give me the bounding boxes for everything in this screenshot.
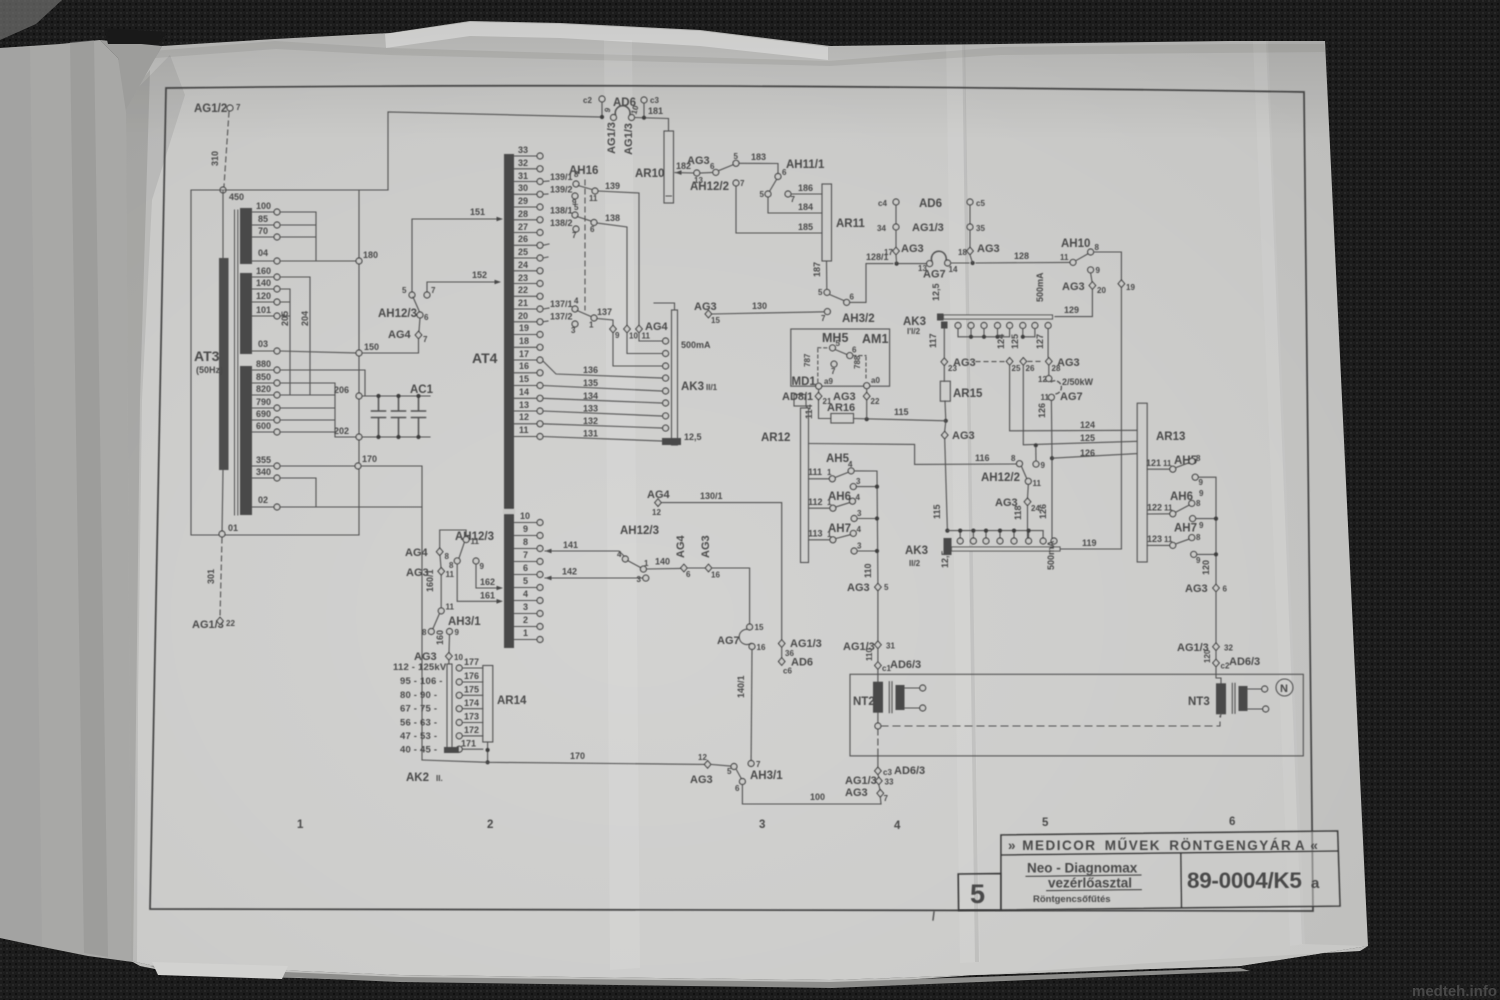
svg-text:67 - 75 -: 67 - 75 - — [400, 704, 437, 715]
svg-text:31: 31 — [886, 642, 895, 651]
svg-text:8: 8 — [1095, 243, 1100, 252]
svg-text:5: 5 — [734, 152, 739, 161]
wire 301 dashed — [220, 538, 222, 617]
svg-text:11: 11 — [1041, 393, 1050, 402]
svg-text:6: 6 — [852, 346, 857, 355]
tap 120 — [252, 301, 273, 303]
svg-text:170: 170 — [362, 454, 377, 464]
svg-text:04: 04 — [258, 248, 268, 258]
svg-text:AH12/3: AH12/3 — [378, 308, 417, 320]
wire 138 — [597, 223, 627, 325]
svg-text:151: 151 — [470, 207, 485, 217]
drawing border frame — [150, 86, 1313, 911]
selector taps — [456, 665, 462, 671]
node a9 — [816, 383, 822, 389]
svg-text:7: 7 — [236, 103, 241, 112]
svg-text:160: 160 — [256, 266, 271, 276]
svg-text:1: 1 — [644, 559, 649, 568]
svg-text:a0: a0 — [871, 376, 880, 385]
svg-text:AG3: AG3 — [1057, 357, 1080, 369]
fold tick mark bottom center — [933, 912, 934, 920]
svg-text:70: 70 — [258, 226, 268, 236]
svg-text:130/1: 130/1 — [700, 491, 723, 501]
svg-text:AH3/2: AH3/2 — [842, 313, 875, 325]
wire 205 — [280, 289, 290, 395]
NT2 primary bottom node — [877, 713, 879, 723]
svg-text:AG3: AG3 — [901, 243, 924, 255]
wire 181 — [635, 118, 669, 132]
svg-text:8: 8 — [1011, 454, 1016, 463]
svg-text:110: 110 — [865, 648, 874, 661]
underline Neo-Diagnomax — [1025, 875, 1141, 876]
svg-text:AK3: AK3 — [905, 545, 928, 557]
svg-text:4: 4 — [848, 460, 853, 469]
relay contact AG3 22 — [866, 389, 868, 393]
svg-text:12: 12 — [698, 753, 707, 762]
shunt bar 500mA — [944, 315, 1053, 319]
svg-text:690: 690 — [256, 409, 271, 419]
svg-text:32: 32 — [1224, 644, 1233, 653]
svg-text:c4: c4 — [878, 199, 887, 208]
wiper AK2 — [444, 747, 459, 753]
wire 137 — [597, 319, 613, 326]
title cell divider — [1180, 853, 1183, 909]
svg-text:Röntgencsőfűtés: Röntgencsőfűtés — [1033, 894, 1111, 905]
svg-text:174: 174 — [464, 698, 479, 708]
svg-text:175: 175 — [464, 685, 479, 695]
svg-text:187: 187 — [812, 262, 822, 277]
svg-text:N: N — [1280, 683, 1288, 695]
shunt fitting — [937, 314, 944, 321]
shunt tap circles row — [955, 323, 961, 329]
svg-text:126: 126 — [1080, 448, 1095, 458]
bright fold strip along top — [385, 22, 828, 60]
wire 160/1 — [440, 575, 442, 607]
wire into NT2 — [877, 674, 879, 681]
svg-text:7: 7 — [791, 195, 796, 204]
svg-text:25: 25 — [518, 247, 528, 257]
svg-text:AG3: AG3 — [1062, 281, 1085, 293]
svg-text:7: 7 — [423, 335, 428, 344]
fuse AG7 128 — [899, 263, 926, 265]
svg-text:9: 9 — [523, 524, 528, 534]
wire 130 — [712, 312, 824, 314]
wire 310 dashed — [224, 112, 229, 186]
wire AR14 bottom to 170 — [487, 742, 489, 762]
wire 182 arrow — [675, 170, 682, 175]
svg-text:NT2: NT2 — [853, 696, 875, 708]
svg-text:118: 118 — [1013, 505, 1023, 520]
svg-text:AG3: AG3 — [952, 430, 975, 442]
svg-text:AR10: AR10 — [635, 168, 664, 180]
svg-text:AG7: AG7 — [923, 269, 946, 281]
switch AH3/1 — [438, 608, 444, 614]
underline vezerloasztal — [1046, 890, 1142, 891]
svg-text:137: 137 — [597, 307, 612, 317]
relay contact AG3 19 — [1118, 280, 1125, 288]
svg-text:500mA: 500mA — [1035, 272, 1045, 302]
svg-text:5: 5 — [818, 288, 823, 297]
svg-text:500mA: 500mA — [681, 340, 711, 350]
wire 170 horizontal — [422, 760, 704, 764]
svg-text:AD6: AD6 — [791, 657, 813, 669]
relay box MH5 AM1 — [791, 329, 890, 386]
wire 125 — [1023, 365, 1137, 445]
svg-text:11: 11 — [642, 332, 651, 341]
svg-text:790: 790 — [256, 397, 271, 407]
wire 152 — [427, 282, 494, 291]
svg-text:124: 124 — [1080, 420, 1095, 430]
wire 186 — [791, 193, 822, 195]
svg-text:124: 124 — [996, 334, 1006, 349]
lower shunt bus — [945, 529, 949, 533]
neutral symbol N — [1276, 679, 1293, 696]
svg-text:8: 8 — [1196, 533, 1201, 542]
svg-text:56 - 63 -: 56 - 63 - — [400, 718, 437, 729]
svg-text:34: 34 — [877, 224, 886, 233]
svg-text:5: 5 — [727, 767, 732, 776]
svg-text:NT3: NT3 — [1188, 696, 1210, 708]
svg-text:8: 8 — [1196, 499, 1201, 508]
svg-text:85: 85 — [258, 214, 268, 224]
svg-text:119: 119 — [1082, 538, 1097, 548]
resistor AR13 — [1137, 403, 1147, 562]
svg-text:28: 28 — [518, 209, 528, 219]
wire 135 — [543, 386, 662, 392]
svg-text:10: 10 — [629, 332, 638, 341]
wire 142 — [545, 576, 552, 581]
svg-text:35: 35 — [976, 224, 985, 233]
svg-text:310: 310 — [210, 151, 220, 166]
svg-text:111: 111 — [808, 467, 822, 477]
node a0 — [864, 383, 870, 389]
svg-text:121: 121 — [1146, 458, 1161, 468]
svg-text:20: 20 — [1097, 286, 1106, 295]
svg-text:MD1: MD1 — [792, 376, 817, 388]
svg-text:355: 355 — [256, 455, 271, 465]
svg-text:6: 6 — [523, 563, 528, 573]
svg-text:12: 12 — [519, 412, 529, 422]
svg-text:122: 122 — [1147, 503, 1162, 513]
wire 129 — [1055, 290, 1092, 317]
relay contact AG1/3 36 — [778, 640, 785, 648]
resistor AR12 — [801, 408, 809, 563]
svg-text:33: 33 — [885, 778, 894, 787]
svg-text:14: 14 — [949, 265, 958, 274]
svg-text:116: 116 — [975, 453, 990, 463]
shunt lower fitting — [941, 322, 948, 329]
contact 138/1 — [543, 244, 549, 245]
svg-text:1: 1 — [297, 819, 304, 831]
svg-text:16: 16 — [519, 361, 529, 371]
svg-text:80 - 90 -: 80 - 90 - — [400, 690, 437, 701]
svg-text:8: 8 — [523, 537, 528, 547]
svg-text:AR14: AR14 — [497, 695, 527, 707]
svg-text:120: 120 — [1201, 560, 1211, 575]
switch blade AH16c — [577, 311, 591, 317]
svg-text:AG3: AG3 — [700, 535, 712, 558]
svg-text:AH12/2: AH12/2 — [981, 472, 1020, 484]
AT4 terminals 10-1 — [514, 511, 543, 643]
svg-text:112 - 125kV: 112 - 125kV — [393, 662, 447, 673]
svg-text:301: 301 — [206, 569, 216, 584]
wiper fitting — [944, 538, 952, 555]
svg-text:vezérlőasztal: vezérlőasztal — [1048, 876, 1132, 891]
wire 184 — [768, 198, 822, 214]
svg-text:129: 129 — [1064, 305, 1079, 315]
sheet number box — [958, 874, 1001, 911]
wire AH10-8 to 19 column — [1094, 252, 1122, 280]
svg-text:9: 9 — [1199, 478, 1204, 487]
svg-text:127: 127 — [1035, 334, 1045, 349]
svg-text:5: 5 — [574, 203, 579, 212]
svg-text:AR15: AR15 — [953, 388, 983, 400]
wire 160 — [448, 635, 451, 652]
wire 123 — [1147, 544, 1169, 546]
capacitor C3 — [412, 396, 426, 437]
tap 85 — [252, 224, 273, 226]
fuse contact c6 AD6 — [781, 648, 783, 659]
svg-text:137/1: 137/1 — [550, 299, 573, 309]
svg-text:26: 26 — [1026, 364, 1035, 373]
tap 02 — [252, 506, 273, 508]
svg-text:117: 117 — [928, 333, 938, 348]
svg-text:AG1/2: AG1/2 — [194, 103, 227, 115]
svg-text:9: 9 — [615, 331, 620, 340]
node 206 — [356, 393, 362, 399]
svg-text:AC1: AC1 — [410, 384, 434, 396]
svg-text:10: 10 — [520, 511, 530, 521]
svg-text:3: 3 — [571, 326, 576, 335]
svg-text:7: 7 — [523, 550, 528, 560]
svg-text:13: 13 — [519, 400, 529, 410]
svg-text:9: 9 — [455, 628, 460, 637]
svg-text:30: 30 — [518, 183, 528, 193]
svg-text:5: 5 — [884, 583, 889, 592]
node 01 — [219, 531, 225, 537]
svg-text:33: 33 — [518, 145, 528, 155]
node 180 — [356, 258, 362, 264]
contact 7 MH5 — [831, 361, 837, 367]
svg-text:140: 140 — [655, 557, 670, 567]
svg-text:9: 9 — [1199, 489, 1204, 498]
svg-text:138/1: 138/1 — [550, 206, 573, 216]
svg-text:131: 131 — [583, 429, 598, 439]
svg-text:136: 136 — [583, 365, 598, 375]
svg-text:c6: c6 — [783, 667, 792, 676]
svg-text:172: 172 — [464, 725, 479, 735]
wires AG4 to AK3 II/1 — [613, 333, 662, 366]
fuse AG7 2/50kW — [1048, 365, 1050, 375]
svg-text:AH12/3: AH12/3 — [620, 525, 659, 537]
svg-text:AR13: AR13 — [1156, 431, 1185, 443]
wire 111 — [809, 478, 830, 480]
wire 139 — [598, 191, 639, 325]
wire 183 — [739, 163, 778, 173]
wire 130/1 — [661, 503, 781, 640]
switch AH3/1 right — [711, 764, 730, 766]
svg-text:787: 787 — [803, 353, 812, 367]
resistor AR16 — [831, 414, 854, 424]
svg-text:AK2: AK2 — [406, 772, 429, 784]
svg-text:177: 177 — [464, 657, 479, 667]
svg-text:5: 5 — [970, 879, 985, 909]
svg-text:138/2: 138/2 — [550, 218, 573, 228]
svg-text:4: 4 — [857, 525, 862, 534]
resistor AK3 II/1 (500mA) — [672, 310, 678, 445]
svg-text:15: 15 — [519, 374, 529, 384]
wire 110 bus — [876, 471, 879, 583]
tap 820 — [252, 394, 273, 396]
svg-text:204: 204 — [300, 311, 310, 326]
svg-text:500mA: 500mA — [1046, 540, 1056, 570]
svg-text:AG3: AG3 — [953, 357, 976, 369]
relay contact AG3 26 — [1020, 358, 1027, 366]
relay contact AG3 23 — [941, 358, 948, 366]
transformer AT3 primary winding — [219, 258, 229, 470]
wire 126 column — [1050, 401, 1053, 538]
svg-text:140/1: 140/1 — [736, 675, 746, 698]
svg-text:202: 202 — [334, 426, 349, 436]
svg-text:AH7: AH7 — [1174, 523, 1197, 535]
heater transformer box — [850, 674, 1303, 756]
svg-text:11: 11 — [446, 570, 455, 579]
wire 140 — [647, 567, 680, 570]
relay contact AG3 25 — [1006, 358, 1013, 366]
svg-text:01: 01 — [228, 523, 238, 533]
svg-text:142: 142 — [562, 567, 577, 577]
svg-text:95 - 106 -: 95 - 106 - — [400, 676, 443, 687]
svg-text:7: 7 — [431, 286, 436, 295]
svg-text:162: 162 — [480, 577, 495, 587]
svg-text:120: 120 — [1203, 649, 1212, 663]
svg-text:152: 152 — [472, 270, 487, 280]
svg-text:2: 2 — [523, 615, 528, 625]
svg-text:185: 185 — [798, 222, 813, 232]
tap wires to AR14 — [462, 668, 482, 749]
svg-text:1: 1 — [827, 468, 832, 477]
svg-text:12: 12 — [652, 508, 661, 517]
svg-text:II.: II. — [436, 774, 443, 783]
svg-text:3: 3 — [523, 602, 528, 612]
resistor AR14 — [483, 666, 493, 743]
svg-text:17: 17 — [519, 349, 529, 359]
tap 600 — [252, 431, 273, 433]
svg-text:AG1/3: AG1/3 — [606, 122, 618, 154]
svg-text:3: 3 — [856, 477, 861, 486]
svg-text:18: 18 — [958, 248, 967, 257]
svg-text:AH5: AH5 — [826, 453, 850, 465]
dashed gang link — [976, 361, 1004, 363]
svg-text:AH3/1: AH3/1 — [448, 616, 481, 628]
svg-text:19: 19 — [519, 323, 529, 333]
wire 170 down to AK2 — [361, 466, 422, 760]
lower shunt bar — [952, 547, 1061, 551]
node c3 — [641, 97, 647, 103]
wire riser to AD6 — [388, 112, 602, 190]
svg-text:5: 5 — [402, 286, 407, 295]
contact 3 below AH7 — [851, 548, 857, 554]
title block outline — [1001, 831, 1340, 910]
lower shunt circles — [957, 538, 963, 544]
relay contact AG1/3 33 — [877, 775, 880, 778]
svg-text:47 - 53 -: 47 - 53 - — [400, 731, 437, 742]
svg-text:24: 24 — [518, 260, 528, 270]
svg-text:7: 7 — [740, 179, 745, 188]
contact 137/2 — [543, 320, 548, 323]
svg-text:7: 7 — [756, 760, 761, 769]
svg-text:6: 6 — [850, 293, 855, 302]
wire 121 — [1147, 468, 1169, 470]
svg-text:22: 22 — [871, 397, 880, 406]
svg-text:c2: c2 — [583, 96, 592, 105]
svg-text:5: 5 — [1042, 817, 1049, 829]
svg-text:AG1/3: AG1/3 — [623, 123, 635, 155]
tap 880 — [252, 369, 273, 371]
svg-text:AK3: AK3 — [681, 381, 704, 393]
fuse AG7 — [747, 624, 753, 630]
svg-text:138: 138 — [605, 213, 620, 223]
autotransformer AT4 bus bar — [504, 154, 514, 648]
svg-text:1: 1 — [523, 628, 528, 638]
bus stubs to circles — [960, 531, 1043, 538]
svg-text:AH12/2: AH12/2 — [690, 181, 729, 193]
svg-text:II/1: II/1 — [706, 383, 718, 392]
wire 141 — [545, 549, 552, 554]
wire to AG7 — [712, 568, 750, 624]
svg-text:11: 11 — [589, 194, 598, 203]
svg-text:820: 820 — [256, 384, 271, 394]
wire 133 — [543, 411, 662, 416]
svg-text:c5: c5 — [976, 199, 985, 208]
tap 355 — [252, 465, 273, 467]
svg-text:176: 176 — [464, 671, 479, 681]
node 35 AG1/3 — [967, 224, 973, 230]
svg-text:AG1/3: AG1/3 — [845, 775, 877, 787]
svg-text:c3: c3 — [650, 96, 659, 105]
wire 134 — [543, 398, 662, 403]
selector AK2 kV scale — [447, 664, 452, 750]
tap 101 — [252, 315, 273, 317]
tap 100 — [252, 211, 273, 213]
svg-text:7: 7 — [821, 314, 826, 323]
svg-text:26: 26 — [518, 234, 528, 244]
svg-text:4: 4 — [574, 297, 579, 306]
svg-text:133: 133 — [583, 404, 598, 414]
wire 140/1 — [750, 650, 753, 760]
faint light wisp top-left corner — [0, 0, 62, 40]
contact 138/2 — [543, 257, 548, 258]
svg-text:5: 5 — [523, 576, 528, 586]
svg-text:150: 150 — [364, 342, 379, 352]
fuse contact c1 AD6/3 — [875, 662, 882, 670]
wire 187 — [826, 261, 828, 289]
wire 880 to node 206 — [280, 370, 365, 396]
svg-text:2: 2 — [487, 819, 493, 831]
left book page stack — [0, 40, 133, 962]
wire 124 — [1010, 365, 1137, 431]
svg-text:AT3: AT3 — [194, 348, 220, 364]
svg-text:180: 180 — [363, 250, 378, 260]
svg-text:31: 31 — [518, 171, 528, 181]
svg-text:160: 160 — [435, 630, 445, 645]
wire 185 — [736, 187, 822, 234]
svg-text:7: 7 — [831, 367, 836, 376]
svg-text:9: 9 — [1199, 521, 1204, 530]
svg-text:AD6/3: AD6/3 — [894, 765, 925, 777]
node c2 — [599, 96, 605, 102]
spine shading left edge — [126, 55, 185, 962]
